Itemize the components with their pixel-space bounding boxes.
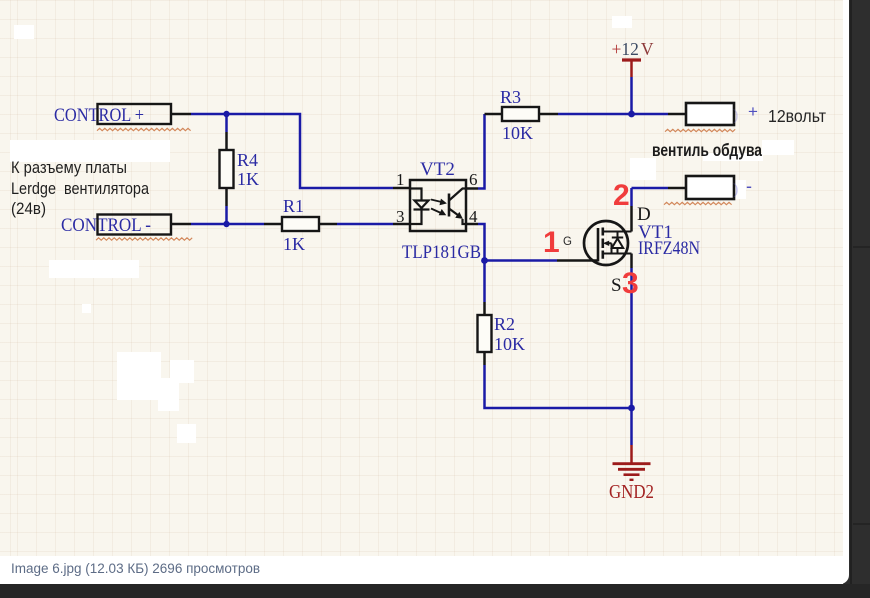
svg-text:): ) (733, 107, 738, 124)
ground GND2 (609, 445, 654, 503)
svg-text:К разъему платы: К разъему платы (11, 159, 127, 177)
svg-text:3: 3 (622, 267, 639, 300)
connector fan - (664, 176, 752, 205)
wire CONTROL+ pin (171, 113, 191, 116)
junction node source/R2 (628, 405, 635, 412)
svg-text:3: 3 (396, 207, 405, 226)
channel segments (601, 228, 604, 259)
power symbol +12V (612, 39, 654, 114)
resistor R1 1K (264, 196, 337, 254)
junction node A (223, 111, 229, 117)
source connection (603, 252, 632, 254)
wire gate node to gate (485, 259, 558, 262)
svg-text:2: 2 (613, 179, 630, 212)
svg-text:10K: 10K (502, 123, 533, 143)
body arrow (608, 243, 612, 253)
connector fan + (12вольт) (665, 102, 826, 132)
wire net CONTROL+ to opto pin 1 (191, 114, 393, 188)
wire R2 to source node (485, 365, 632, 408)
phototransistor inside VT2 (448, 194, 451, 217)
drain connection (603, 230, 632, 232)
pin 6 stub (466, 187, 478, 190)
svg-text:10K: 10K (494, 334, 525, 354)
svg-text:S: S (611, 275, 622, 296)
svg-text:VT2: VT2 (420, 159, 455, 180)
wire R1 to opto pin 3 (337, 223, 393, 226)
body diode (612, 232, 623, 254)
svg-text:6: 6 (469, 170, 478, 189)
svg-text:R3: R3 (500, 87, 521, 107)
port CONTROL + (54, 104, 191, 131)
svg-text:R4: R4 (237, 150, 258, 170)
svg-text:-: - (746, 176, 752, 196)
svg-text:(24в): (24в) (11, 200, 46, 218)
wire CONTROL- pin (171, 223, 191, 226)
LED inside VT2 (410, 189, 422, 225)
wire source down (630, 254, 633, 446)
svg-text:CONTROL -: CONTROL - (61, 215, 151, 236)
wire opto pin1 stub (393, 187, 410, 190)
svg-text:вентиль обдува: вентиль обдува (652, 140, 762, 160)
junction node +12V rail (628, 111, 635, 118)
junction node gate (481, 257, 488, 264)
svg-text:): ) (733, 181, 738, 198)
gate bar (597, 228, 600, 262)
resistor R4 1K (220, 114, 260, 224)
port CONTROL - (61, 215, 192, 241)
pin 4 stub (466, 223, 478, 226)
wire +12V node to fan+ connector (668, 113, 686, 116)
svg-text:R2: R2 (494, 314, 515, 334)
wire drain to fan- connector (632, 188, 687, 232)
svg-text:IRFZ48N: IRFZ48N (638, 238, 700, 259)
annotation: К разъему платы Lerdge вентилятора (24в) (11, 159, 150, 218)
junction node B (223, 221, 229, 227)
resistor R3 10K (485, 87, 559, 143)
decorative erase patches (unlabeled) (10, 16, 794, 443)
svg-text:TLP181GB: TLP181GB (402, 242, 481, 263)
svg-text:1K: 1K (237, 169, 259, 189)
svg-text:1K: 1K (283, 234, 305, 254)
light arrows (431, 200, 441, 202)
wire opto pin3 stub (393, 223, 410, 226)
wire opto pin4 down to gate node (478, 224, 485, 261)
svg-text:Lerdge вентилятора: Lerdge вентилятора (11, 180, 150, 198)
svg-text:R1: R1 (283, 196, 304, 216)
svg-text:G: G (563, 236, 572, 248)
transistor Q-VT1 IRFZ48N MOSFET (557, 221, 700, 265)
svg-text:+12V: +12V (612, 39, 654, 59)
svg-text:1: 1 (543, 226, 560, 259)
svg-text:12вольт: 12вольт (768, 106, 826, 126)
gate pin wire (557, 259, 598, 262)
wire opto pin6 to R3 (478, 114, 485, 189)
svg-text:GND2: GND2 (609, 481, 654, 503)
svg-text:+: + (748, 102, 758, 121)
resistor R2 10K (478, 261, 526, 366)
wire CONTROL- to R1 (191, 223, 264, 226)
optocoupler U-VT2 TLP181GB (396, 159, 481, 263)
wire R3 to +12V node (558, 113, 668, 116)
svg-text:1: 1 (396, 170, 405, 189)
